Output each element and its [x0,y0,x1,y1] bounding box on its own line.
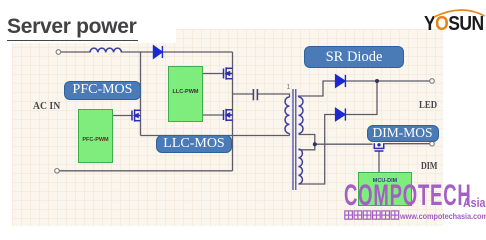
svg-text:1: 1 [287,84,291,91]
